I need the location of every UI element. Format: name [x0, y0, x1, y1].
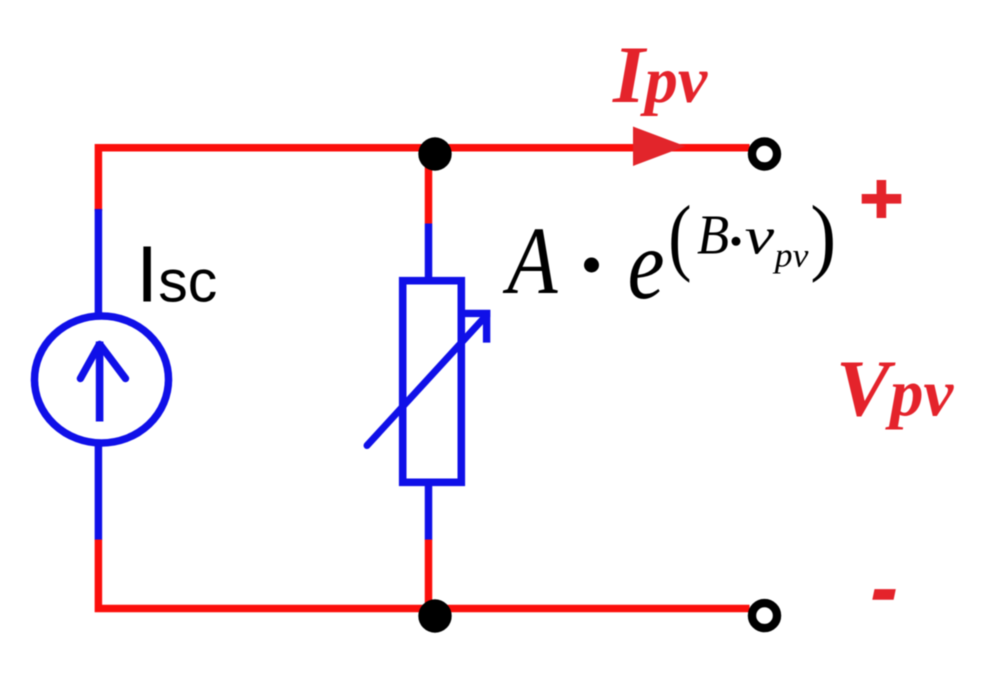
svg-text:B: B — [697, 205, 729, 267]
label + polarity — [862, 180, 902, 218]
terminal: + output — [752, 142, 777, 167]
node: top junction dot — [418, 137, 451, 170]
svg-text:Isc: Isc — [136, 229, 217, 318]
formula: multiplication dot — [584, 258, 599, 273]
variable resistor diagonal arrow — [367, 319, 484, 446]
svg-text:v: v — [745, 209, 776, 266]
variable resistor R1 body — [403, 281, 462, 483]
svg-text:(: ( — [668, 188, 691, 284]
current source arrow shaft — [96, 342, 104, 422]
svg-text:A: A — [502, 207, 558, 314]
svg-text:): ) — [810, 188, 836, 284]
wire: middle vertical red lower — [425, 540, 433, 613]
label - polarity — [872, 589, 896, 600]
variable resistor arrowhead corner — [465, 310, 491, 343]
terminal: - output — [752, 603, 777, 628]
svg-text:Vpv: Vpv — [836, 344, 955, 434]
formula: small dot — [732, 237, 741, 246]
svg-text:e: e — [628, 209, 665, 320]
current direction arrow Ipv (triangle on top wire) — [633, 127, 686, 167]
wire: middle vertical blue lower — [425, 484, 433, 540]
svg-text:Ipv: Ipv — [612, 29, 708, 120]
wire: middle vertical red upper — [425, 149, 433, 224]
current source arrowhead legs — [80, 345, 125, 379]
wire: middle vertical blue upper — [425, 224, 433, 282]
svg-text:pv: pv — [773, 238, 810, 275]
current source U1 circle — [35, 316, 169, 443]
wire: top-left red run (left vertical upper + top horizontal) — [98, 148, 749, 211]
wire: bottom-left red run (left vertical lower + bottom horizontal) — [98, 540, 749, 609]
node: bottom junction dot — [418, 599, 451, 632]
wire: left vertical blue below source — [95, 443, 103, 540]
wire: left vertical blue (into current source) — [95, 209, 103, 316]
